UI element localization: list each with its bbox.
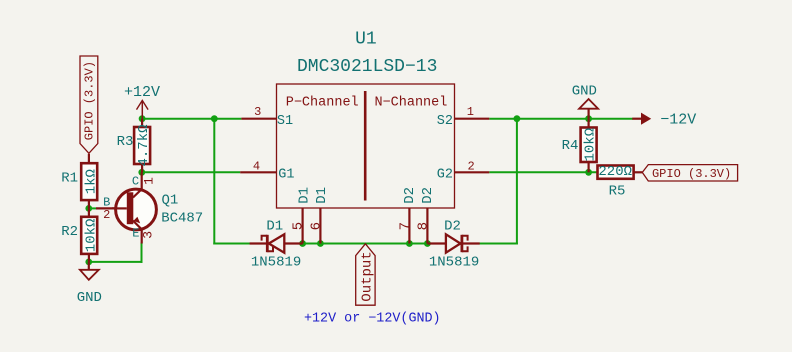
svg-text:8: 8 bbox=[416, 222, 432, 230]
svg-text:+12V: +12V bbox=[124, 84, 160, 101]
svg-text:+12V or −12V(GND): +12V or −12V(GND) bbox=[304, 312, 441, 327]
svg-text:P−Channel: P−Channel bbox=[286, 96, 359, 111]
svg-text:2: 2 bbox=[103, 208, 110, 222]
svg-text:R2: R2 bbox=[61, 224, 78, 240]
svg-text:D1: D1 bbox=[296, 187, 312, 204]
svg-text:3: 3 bbox=[141, 231, 156, 239]
svg-text:5: 5 bbox=[290, 222, 306, 230]
svg-text:BC487: BC487 bbox=[161, 210, 203, 226]
svg-text:1N5819: 1N5819 bbox=[251, 254, 301, 270]
svg-text:10kΩ: 10kΩ bbox=[583, 128, 599, 162]
svg-text:1: 1 bbox=[467, 105, 474, 119]
svg-text:4.7kΩ: 4.7kΩ bbox=[136, 124, 152, 166]
svg-text:E: E bbox=[132, 226, 139, 240]
svg-text:4: 4 bbox=[253, 159, 260, 173]
svg-text:2: 2 bbox=[467, 159, 474, 173]
svg-text:Output: Output bbox=[360, 251, 376, 301]
svg-text:R3: R3 bbox=[117, 134, 134, 150]
svg-text:N−Channel: N−Channel bbox=[374, 96, 447, 111]
svg-text:1N5819: 1N5819 bbox=[429, 254, 479, 270]
svg-text:R4: R4 bbox=[562, 138, 579, 154]
svg-text:−12V: −12V bbox=[660, 111, 696, 128]
svg-text:R1: R1 bbox=[61, 170, 78, 186]
svg-text:GPIO (3.3V): GPIO (3.3V) bbox=[82, 61, 96, 140]
svg-text:10kΩ: 10kΩ bbox=[83, 219, 99, 253]
svg-text:GPIO (3.3V): GPIO (3.3V) bbox=[652, 167, 731, 181]
svg-text:3: 3 bbox=[254, 105, 261, 119]
svg-text:C: C bbox=[132, 175, 139, 189]
svg-text:220Ω: 220Ω bbox=[598, 164, 632, 180]
svg-text:6: 6 bbox=[309, 222, 325, 230]
svg-text:GND: GND bbox=[77, 290, 102, 306]
svg-text:D2: D2 bbox=[420, 187, 436, 204]
svg-text:S2: S2 bbox=[437, 114, 453, 129]
svg-text:D1: D1 bbox=[314, 187, 330, 204]
svg-text:D2: D2 bbox=[444, 219, 461, 235]
svg-text:U1: U1 bbox=[355, 30, 377, 50]
svg-text:GND: GND bbox=[572, 84, 597, 100]
svg-text:Q1: Q1 bbox=[161, 193, 178, 209]
svg-text:D2: D2 bbox=[402, 187, 418, 204]
svg-text:G1: G1 bbox=[278, 167, 294, 182]
svg-text:R5: R5 bbox=[609, 184, 626, 200]
svg-text:G2: G2 bbox=[437, 168, 453, 183]
svg-text:7: 7 bbox=[398, 222, 414, 230]
svg-text:1kΩ: 1kΩ bbox=[83, 169, 99, 194]
svg-text:1: 1 bbox=[141, 177, 156, 185]
svg-text:DMC3021LSD−13: DMC3021LSD−13 bbox=[297, 57, 437, 77]
svg-text:S1: S1 bbox=[277, 114, 293, 129]
svg-text:D1: D1 bbox=[266, 219, 283, 235]
